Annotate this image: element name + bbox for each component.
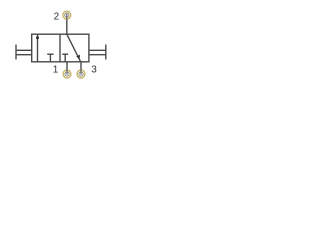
svg-text:1: 1: [53, 65, 59, 76]
svg-text:2: 2: [54, 12, 60, 23]
svg-text:3: 3: [91, 65, 97, 76]
